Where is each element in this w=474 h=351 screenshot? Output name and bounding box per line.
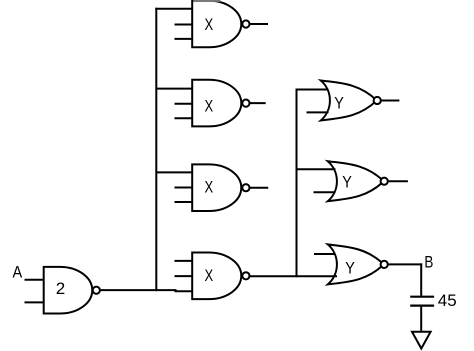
wire X4 input stub pin 1 xyxy=(175,260,193,262)
X1 output bubble xyxy=(242,20,249,27)
wire X1 input stub pin 3 xyxy=(175,38,193,40)
nor gate Y3 body xyxy=(328,244,384,284)
svg-text:Y: Y xyxy=(342,174,352,192)
bus-2 vertical wire xyxy=(296,89,298,278)
svg-text:Y: Y xyxy=(345,259,355,277)
wire X3 input stub pin 3 xyxy=(175,201,193,203)
wire bus-1 to X3 top input xyxy=(156,171,192,173)
svg-text:X: X xyxy=(204,179,213,197)
Y1 output bubble xyxy=(374,97,381,104)
nand gate X2 body xyxy=(192,80,241,127)
wire U1 output to X4 bottom input xyxy=(100,289,176,291)
svg-text:Y: Y xyxy=(334,94,344,112)
nand gate X3 body xyxy=(192,164,241,211)
wire X3 output stub xyxy=(249,187,268,189)
svg-text:X: X xyxy=(204,267,213,285)
wire bus-2 elbow to Y1 top input xyxy=(296,89,329,91)
X4 output bubble xyxy=(242,272,249,279)
svg-text:B: B xyxy=(424,253,433,271)
X2 output bubble xyxy=(242,100,249,107)
wire U1 input stub pin 2 xyxy=(25,301,44,303)
wire Y3 input stub pin 1 xyxy=(314,253,335,255)
svg-text:A: A xyxy=(13,264,23,282)
wire X4 bottom input stub pin 3 xyxy=(175,290,193,292)
wire X2 input stub pin 3 xyxy=(175,117,193,119)
wire X4 output to Y3 bottom input xyxy=(249,275,337,277)
wire bus-1 to X2 top input xyxy=(156,88,192,90)
capacitor C1 bottom plate xyxy=(410,305,434,307)
X3 output bubble xyxy=(242,184,249,191)
svg-text:45: 45 xyxy=(438,291,457,310)
wire bus-1 elbow to X1 top input xyxy=(155,8,192,10)
wire X1 input stub pin 2 xyxy=(175,24,193,26)
wire X2 input stub pin 2 xyxy=(175,103,193,105)
X1 clipped top edge (gray) xyxy=(193,0,220,2)
capacitor C1 top plate xyxy=(410,296,434,298)
svg-text:2: 2 xyxy=(56,279,65,298)
wire Y2 output stub xyxy=(388,180,408,182)
wire X2 output stub xyxy=(249,102,265,104)
Y2 output bubble xyxy=(381,178,388,185)
svg-text:X: X xyxy=(204,16,213,34)
wire X1 output stub xyxy=(249,23,268,25)
wire X3 input stub pin 2 xyxy=(175,187,193,189)
wire bus-2 to Y2 top input xyxy=(297,168,336,170)
ground symbol xyxy=(412,332,431,349)
wire Y2 input stub pin 2 xyxy=(314,191,336,193)
svg-text:X: X xyxy=(204,98,213,116)
nand gate X1 body xyxy=(192,1,241,48)
nor gate Y1 body xyxy=(321,80,377,120)
U1 output bubble xyxy=(93,287,100,294)
wire X4 input stub pin 2 xyxy=(175,275,193,277)
wire U1 input stub pin 1 (A) xyxy=(25,279,44,281)
nand gate X4 body xyxy=(192,253,241,300)
bus-1 vertical wire xyxy=(155,8,157,291)
nand gate U1 body xyxy=(44,267,93,314)
wire node B down to capacitor C1 xyxy=(420,263,422,295)
wire C1 to ground xyxy=(420,307,422,332)
wire Y1 output stub xyxy=(381,99,400,101)
nor gate Y2 body xyxy=(328,161,384,201)
wire Y1 input stub pin 2 xyxy=(307,111,329,113)
wire Y3 output to node B xyxy=(388,263,423,265)
Y3 output bubble xyxy=(381,261,388,268)
